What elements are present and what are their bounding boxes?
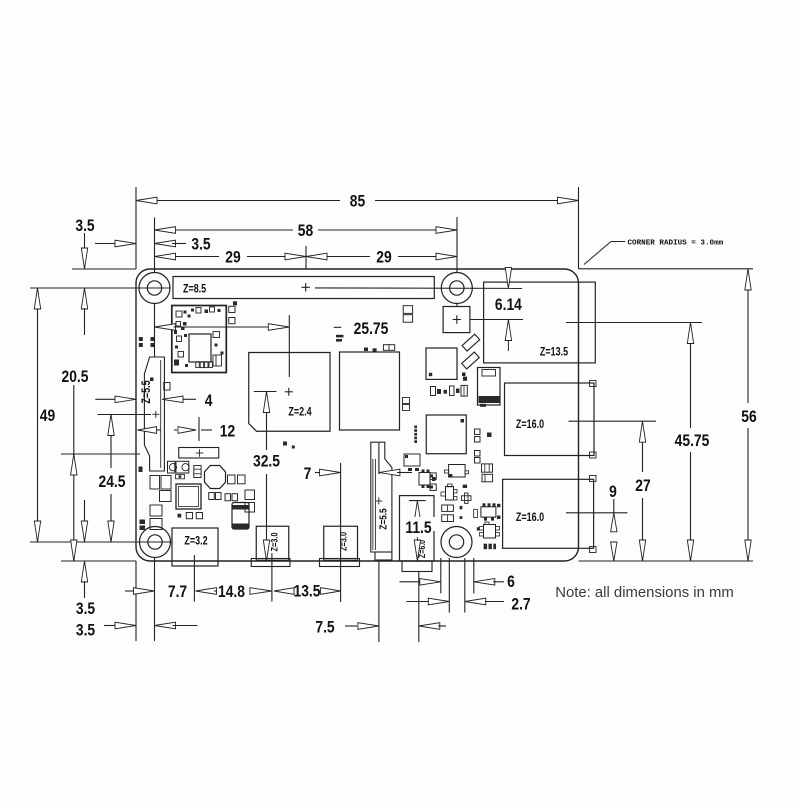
bottom chain dims 7.7 14.8 13.5 <box>125 590 136 592</box>
ethernet jack Z=13.5 <box>484 282 596 363</box>
wire USB3 center line <box>569 420 657 422</box>
micro HDMI0 Z=3.0 <box>256 526 289 560</box>
GPIO header J8 Z=8.5 <box>173 277 434 299</box>
AV center vline <box>418 572 420 643</box>
dim 85 extension lines <box>135 187 137 269</box>
wifi module U5 <box>172 306 227 373</box>
DSI display connector Z=5.5 <box>144 357 164 471</box>
svg-text:CORNER RADIUS = 3.0mm: CORNER RADIUS = 3.0mm <box>628 240 724 248</box>
svg-text:Note: all dimensions in mm: Note: all dimensions in mm <box>555 584 734 601</box>
wire ethernet center line right <box>566 322 702 324</box>
HDMI1 center vline <box>340 463 342 602</box>
svg-text:29: 29 <box>376 248 391 266</box>
dim 56 <box>747 269 749 403</box>
USB controller with stripes <box>478 368 501 406</box>
svg-text:45.75: 45.75 <box>675 432 710 450</box>
RAM Z=2.4 <box>249 353 330 432</box>
DSI lower line <box>164 440 166 455</box>
dim 12 <box>138 427 157 434</box>
cap pair J <box>442 505 454 511</box>
svg-text:85: 85 <box>350 192 366 210</box>
dim 58 <box>155 229 294 231</box>
svg-text:56: 56 <box>741 408 756 426</box>
svg-text:3.5: 3.5 <box>76 600 96 618</box>
dim 2.7 hole <box>448 558 450 613</box>
chip B <box>426 348 457 379</box>
wire board bottom edge extension left <box>61 560 136 562</box>
svg-text:Z=16.0: Z=16.0 <box>516 512 544 524</box>
inductor rounded <box>168 461 189 473</box>
mounting hole top-right <box>441 273 472 304</box>
mounting hole top-left <box>139 273 170 304</box>
tilted passive 2 <box>462 352 480 369</box>
plus shaped part <box>462 496 472 501</box>
dim 3.5 top <box>95 243 118 245</box>
USB-C power Z=3.2 <box>172 528 218 566</box>
svg-text:Z=8.5: Z=8.5 <box>183 283 206 295</box>
svg-text:27: 27 <box>635 477 650 495</box>
PCB board outline 85x56mm <box>136 269 579 561</box>
micro HDMI1 Z=3.0 <box>324 526 358 560</box>
wire PoE to ethernet center line <box>470 319 523 321</box>
svg-text:24.5: 24.5 <box>99 473 126 491</box>
extension hole center down <box>154 558 156 642</box>
AV jack Z=6.0 <box>400 496 435 561</box>
regulator cluster passives <box>150 476 160 490</box>
misc small parts <box>403 306 412 314</box>
dim 29 29 <box>155 256 220 258</box>
wire USB2 center line <box>566 512 628 514</box>
svg-text:Z=3.2: Z=3.2 <box>184 536 207 548</box>
svg-text:58: 58 <box>298 222 313 240</box>
dim 27 <box>642 421 644 472</box>
wire board top edge extension right <box>579 268 754 270</box>
2-pad part below inductor <box>176 474 185 478</box>
dim 45.75 <box>690 323 692 429</box>
wire board bottom edge extension right <box>579 560 754 562</box>
svg-text:4: 4 <box>205 392 213 410</box>
part G <box>482 474 493 482</box>
part F <box>482 464 493 472</box>
vertical 2-pad part <box>194 466 201 478</box>
svg-text:32.5: 32.5 <box>253 452 280 470</box>
PMIC chip <box>176 484 201 509</box>
wifi module passives <box>176 311 182 317</box>
RAM center vline <box>288 315 290 377</box>
USB2 stack Z=16.0 <box>503 479 594 548</box>
svg-text:Z=16.0: Z=16.0 <box>516 419 544 431</box>
SOT23 H <box>446 487 454 501</box>
capacitor cylinder <box>232 503 249 530</box>
mounting hole bottom-right <box>441 527 472 558</box>
chip C <box>426 415 466 454</box>
dim 3.5 bottom vertical <box>84 500 86 522</box>
CSI center vline top <box>378 443 380 474</box>
header rect with plus <box>179 448 219 459</box>
SOIC N <box>484 525 496 539</box>
svg-text:12: 12 <box>220 422 235 440</box>
dim 49 <box>37 288 39 542</box>
svg-text:25.75: 25.75 <box>354 320 389 338</box>
svg-text:7.7: 7.7 <box>168 583 187 601</box>
corner radius callout <box>584 242 625 265</box>
svg-text:Z=5.5: Z=5.5 <box>141 380 153 403</box>
svg-text:3.5: 3.5 <box>76 621 96 639</box>
dim 24.5 <box>110 415 112 469</box>
wire GPIO center line to right hole <box>315 287 522 290</box>
svg-text:6.14: 6.14 <box>495 296 522 314</box>
octagon inductor L1 <box>205 466 226 489</box>
SOIC M <box>481 507 496 517</box>
svg-text:14.8: 14.8 <box>218 583 245 601</box>
svg-text:29: 29 <box>225 248 240 266</box>
svg-text:Z=3.0: Z=3.0 <box>269 532 280 551</box>
dim 32.5 <box>266 394 268 450</box>
svg-text:20.5: 20.5 <box>62 368 89 386</box>
svg-text:7: 7 <box>304 465 312 483</box>
tilted passive 1 <box>462 334 480 351</box>
dim 6.14 <box>505 267 511 288</box>
part E <box>449 465 466 478</box>
PoE header J6 <box>443 307 470 333</box>
wire hole center line bottom-left <box>30 541 172 543</box>
wire board top edge extension left <box>72 268 136 270</box>
svg-text:9: 9 <box>609 483 617 501</box>
svg-text:13.5: 13.5 <box>294 582 321 600</box>
dim 6 pad <box>440 558 442 593</box>
dim 25.75 <box>155 324 176 331</box>
camera line y454 <box>61 453 140 455</box>
dim 85 <box>136 200 340 202</box>
svg-text:49: 49 <box>40 407 55 425</box>
dim 58 extension lines <box>154 218 156 274</box>
svg-text:3.5: 3.5 <box>191 235 211 253</box>
DSI center line y414.5 <box>98 414 152 416</box>
svg-text:11.5: 11.5 <box>405 519 432 537</box>
mounting hole bottom-left <box>140 527 171 558</box>
svg-text:Z=5.5: Z=5.5 <box>376 508 388 529</box>
SoC rect A <box>340 352 400 430</box>
svg-text:7.5: 7.5 <box>315 618 335 636</box>
svg-text:2.7: 2.7 <box>511 595 530 613</box>
wire hole center line top-left <box>30 287 170 289</box>
dim 4 <box>95 398 117 400</box>
USB3 stack Z=16.0 <box>505 383 595 456</box>
cap pair L <box>442 515 454 522</box>
svg-text:6: 6 <box>507 573 515 591</box>
svg-text:Z=2.4: Z=2.4 <box>288 406 311 418</box>
svg-text:Z=3.0: Z=3.0 <box>338 532 349 551</box>
svg-text:Z=13.5: Z=13.5 <box>540 346 568 358</box>
pin strip dots <box>414 426 417 429</box>
CSI camera connector Z=5.5 <box>371 442 392 552</box>
SOT transistor Q1 <box>419 473 430 486</box>
CSI center vline bottom <box>378 560 380 642</box>
svg-text:3.5: 3.5 <box>75 217 95 235</box>
extension board left edge down <box>135 561 137 641</box>
dim 11.5 <box>409 500 426 502</box>
